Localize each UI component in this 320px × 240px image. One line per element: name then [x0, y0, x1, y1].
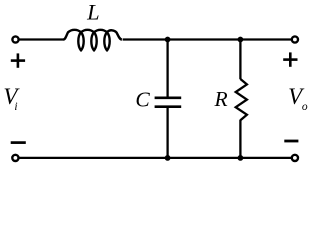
wire top-left — [19, 38, 63, 40]
capacitor C: bottom plate — [155, 105, 182, 108]
junction node: capacitor/resistor top — [238, 37, 244, 43]
terminal bottom-left — [12, 155, 18, 161]
capacitor C: top plate — [155, 97, 182, 100]
polarity minus (input) — [11, 141, 26, 144]
polarity plus (input) — [11, 53, 25, 67]
svg-text:C: C — [135, 88, 150, 112]
resistor R: top lead wire — [239, 40, 241, 80]
polarity minus (output) — [284, 140, 298, 143]
terminal top-right — [292, 36, 298, 42]
resistor R: bottom lead wire — [239, 120, 241, 158]
junction node: resistor bottom — [238, 155, 244, 161]
svg-text:R: R — [214, 87, 228, 111]
terminal top-left — [12, 36, 18, 42]
junction node: inductor/capacitor — [165, 37, 171, 43]
capacitor C: bottom lead wire — [166, 107, 168, 158]
svg-text:V: V — [3, 84, 20, 109]
resistor R: zigzag body — [236, 79, 247, 120]
capacitor C: top lead wire — [166, 40, 168, 99]
svg-text:i: i — [14, 101, 17, 113]
svg-text:L: L — [86, 0, 100, 24]
inductor L — [63, 30, 122, 51]
polarity plus (output) — [283, 52, 297, 66]
junction node: capacitor bottom — [165, 155, 171, 161]
wire top-middle — [123, 38, 291, 40]
svg-text:o: o — [302, 101, 308, 113]
terminal bottom-right — [292, 155, 298, 161]
wire bottom — [19, 157, 291, 159]
